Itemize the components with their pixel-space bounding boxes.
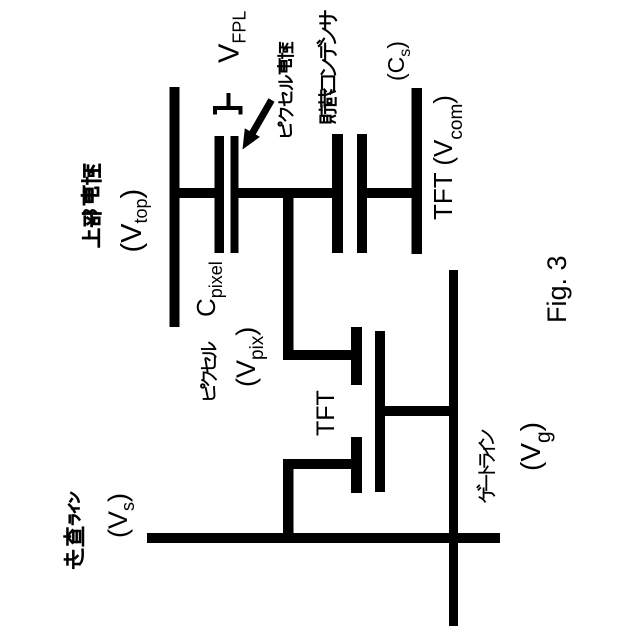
svg-text:(Vs): (Vs) xyxy=(103,493,138,538)
svg-text:Fig. 3: Fig. 3 xyxy=(542,255,572,323)
svg-text:TFT: TFT xyxy=(312,390,340,436)
